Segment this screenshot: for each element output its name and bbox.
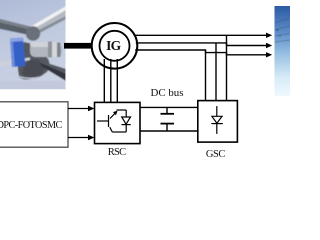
svg-text:IG: IG — [106, 38, 122, 53]
svg-text:DPC-FOTOSMC: DPC-FOTOSMC — [0, 120, 62, 131]
svg-text:RSC: RSC — [108, 147, 126, 158]
svg-text:DC bus: DC bus — [151, 87, 184, 99]
svg-text:GSC: GSC — [206, 149, 225, 158]
